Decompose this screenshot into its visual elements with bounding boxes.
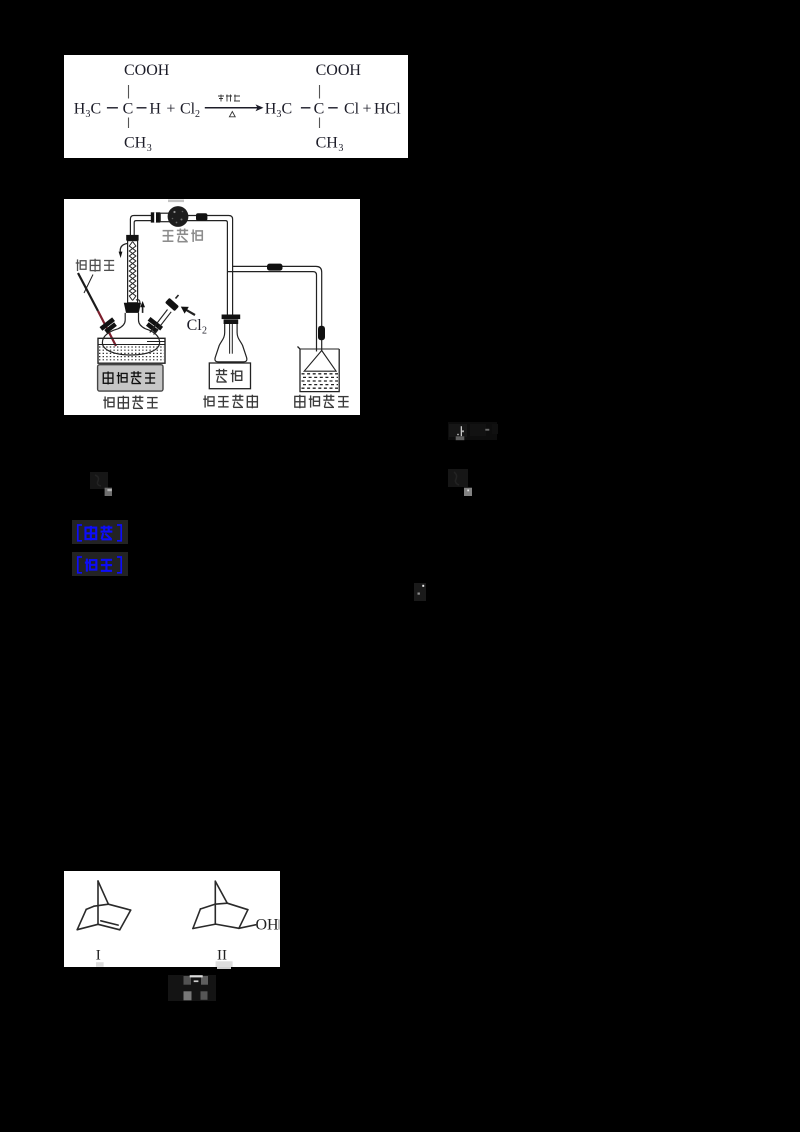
left back G-H [86, 906, 94, 909]
bond C to COOH left [128, 85, 130, 99]
svg-text:+: + [363, 101, 372, 118]
svg-text:HCl: HCl [374, 101, 401, 118]
connector on branch tube [267, 264, 283, 271]
bath water dots [99, 347, 164, 360]
glyph substitutes for CJK labels [0, 0, 1, 1]
right ring top B-C [108, 904, 130, 910]
bond C-Cl [328, 107, 338, 109]
drying tube left connector [151, 212, 160, 222]
svg-text:Cl: Cl [344, 101, 360, 118]
svg-text:H: H [149, 101, 161, 118]
bridge vertical bond [214, 881, 216, 924]
condenser bottom stopper [124, 303, 141, 313]
left ring side F-G [77, 909, 86, 929]
reaction arrow [205, 107, 262, 109]
beaker liquid dashes [302, 374, 339, 388]
gray sliver right edge [278, 919, 280, 929]
thermometer upper stem [78, 273, 98, 311]
bracket open [78, 525, 82, 541]
svg-text:2: 2 [195, 109, 200, 120]
svg-text:H: H [74, 101, 86, 118]
condenser side hook arrow [120, 244, 127, 253]
svg-text:OH: OH [256, 917, 280, 934]
left ring side F-G [193, 909, 201, 929]
delta below arrow [229, 112, 235, 117]
bracket open [78, 557, 82, 573]
svg-text:CH: CH [124, 135, 147, 152]
thermometer red lower stem [98, 311, 116, 346]
block under flask [209, 363, 250, 389]
drying tube right connector [196, 213, 207, 221]
bracket close [117, 525, 121, 541]
condenser outer tube [128, 241, 138, 303]
char [101, 526, 113, 540]
svg-text:3: 3 [147, 143, 152, 154]
molecule I norbornene [77, 881, 131, 930]
label thermometer [76, 259, 114, 272]
water bath container [98, 338, 165, 363]
double bond outer D-E [98, 924, 120, 930]
condenser spiral [129, 242, 136, 301]
funnel [304, 351, 336, 372]
bath water surface line [98, 344, 165, 346]
label heater [103, 371, 155, 384]
pointer line from label [84, 275, 93, 294]
left back G-H [200, 904, 215, 909]
heater box [98, 365, 163, 391]
svg-text:C: C [314, 101, 325, 118]
drying tube white cylinder [160, 213, 170, 222]
gray block [456, 436, 465, 440]
Cl2 tube connector blob [165, 298, 179, 312]
wire branch tube to absorber [233, 266, 322, 351]
delivery tube inside flask [229, 324, 231, 354]
label absorber unit [295, 395, 349, 409]
bond C to CH3 right [319, 118, 321, 129]
bracket close [117, 557, 121, 573]
double bond inner [101, 921, 118, 925]
svg-text:CH: CH [316, 135, 339, 152]
drying tube bulb [168, 206, 189, 227]
gray dash [485, 429, 489, 431]
molecule II norbornanol [193, 881, 256, 928]
flask center neck [118, 313, 125, 329]
bridge vertical bond [97, 881, 99, 924]
svg-text:3: 3 [338, 143, 343, 154]
apex to right bridgehead [98, 881, 108, 904]
svg-text:II: II [217, 948, 227, 964]
bond H3C-C right [301, 107, 311, 109]
arrow pointing at tube tip [186, 310, 195, 315]
svg-text:COOH: COOH [124, 62, 170, 79]
beaker [298, 347, 340, 392]
svg-text:C: C [282, 101, 293, 118]
svg-text:H: H [265, 101, 277, 118]
char [101, 560, 112, 571]
svg-text:COOH: COOH [316, 62, 362, 79]
svg-text:2: 2 [202, 326, 207, 337]
bond C to CH3 left [128, 118, 130, 129]
connector on absorber downpipe [318, 326, 325, 341]
up arrow beside stopper [142, 307, 144, 313]
apex to right bridgehead [215, 881, 227, 903]
bond C-H [137, 107, 147, 109]
Cl2 tube tip [176, 295, 179, 299]
svg-text:I: I [96, 948, 101, 964]
wire tube from condenser top elbow right to drying tube then elbow down [130, 216, 232, 315]
bond H3C-C [107, 107, 118, 109]
Cl2 delivery tube [150, 310, 168, 333]
back edge H-B [94, 904, 109, 906]
svg-text:Cl: Cl [187, 317, 203, 334]
flask left neck stopper [100, 317, 119, 334]
svg-text:C: C [91, 101, 102, 118]
condenser bottom hook arrow [136, 300, 140, 303]
bottom edge D-E [216, 924, 239, 928]
bottom left E-F [193, 924, 216, 928]
bond to OH [239, 925, 256, 929]
gray square [464, 488, 472, 496]
label drying tube [163, 229, 203, 242]
svg-text:Cl: Cl [180, 101, 196, 118]
condenser top connector [126, 235, 138, 241]
bottom left E-F [77, 924, 98, 929]
erlenmeyer flask [215, 324, 247, 362]
right ring side C-D [120, 910, 131, 930]
back edge [215, 903, 227, 904]
right ring top [227, 903, 248, 910]
right ring side [239, 910, 248, 929]
bond C to COOH right [319, 85, 321, 99]
svg-text:C: C [123, 101, 134, 118]
flask body [102, 329, 159, 355]
gray remnant patch on top edge [168, 200, 184, 203]
label reaction unit [103, 396, 157, 410]
flask right neck stopper [145, 317, 164, 334]
gray square [105, 488, 112, 496]
bright bar [461, 426, 462, 436]
tiny catalyst glyphs above arrow [218, 95, 240, 102]
label pad block [216, 369, 242, 382]
svg-text:+: + [166, 101, 175, 118]
char [85, 559, 97, 572]
char [85, 526, 96, 541]
gray patch under label II [217, 967, 231, 969]
label buffer unit [203, 395, 257, 409]
erlenmeyer stopper bands [222, 315, 241, 320]
